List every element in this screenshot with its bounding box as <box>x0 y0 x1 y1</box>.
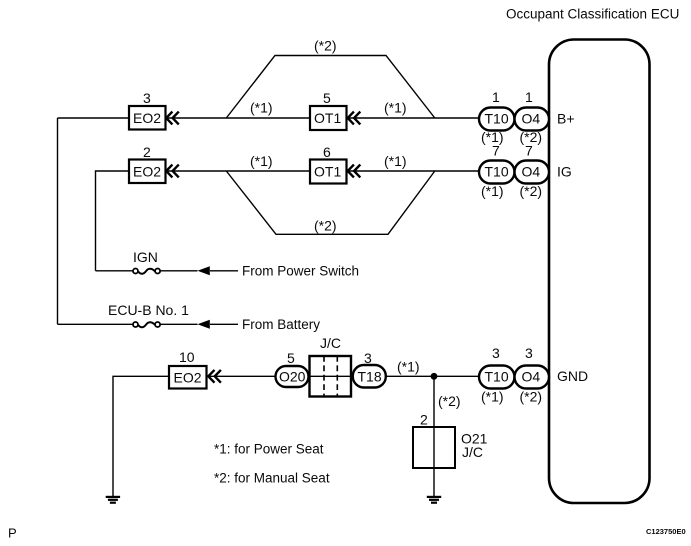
svg-text:(*1): (*1) <box>397 359 420 375</box>
chevron OT1 row2 <box>348 165 361 178</box>
svg-text:C123750E0: C123750E0 <box>646 527 686 536</box>
connector EO2 pin 3 <box>129 106 166 130</box>
svg-text:EO2: EO2 <box>133 164 161 180</box>
svg-text:OT1: OT1 <box>314 110 341 126</box>
svg-text:3: 3 <box>143 90 151 106</box>
svg-text:T10: T10 <box>485 164 509 180</box>
svg-text:IG: IG <box>557 164 572 180</box>
svg-text:OT1: OT1 <box>314 164 341 180</box>
svg-text:O4: O4 <box>522 164 541 180</box>
connector O4 row3 <box>515 366 550 389</box>
svg-text:From Power Switch: From Power Switch <box>242 264 359 279</box>
svg-text:EO2: EO2 <box>133 110 161 126</box>
svg-text:7: 7 <box>492 143 500 159</box>
chevron OT1 row1 <box>348 112 361 125</box>
svg-text:2: 2 <box>420 412 428 428</box>
svg-text:P: P <box>8 526 17 541</box>
wire *2 bypass bottom <box>226 171 434 234</box>
wire row3 segment EO2-O20 <box>207 375 276 377</box>
wire junction down to ground <box>433 376 435 496</box>
svg-text:J/C: J/C <box>462 444 483 460</box>
svg-text:GND: GND <box>557 368 588 384</box>
junction connector J/C box <box>309 356 353 397</box>
svg-text:T10: T10 <box>485 369 509 385</box>
wire row1 left (bus to EO2) <box>58 117 130 119</box>
svg-text:10: 10 <box>179 349 195 365</box>
chevron EO2 row3 <box>208 370 221 383</box>
connector T10 row2 <box>479 161 515 184</box>
connector T18 <box>353 365 386 388</box>
svg-text:ECU-B No. 1: ECU-B No. 1 <box>108 302 189 318</box>
svg-text:Occupant Classification ECU: Occupant Classification ECU <box>506 7 679 22</box>
wire after arrow row ECU-B <box>210 323 238 325</box>
chevron EO2 row1 <box>166 112 179 125</box>
svg-text:B+: B+ <box>557 111 575 127</box>
svg-text:1: 1 <box>492 89 500 105</box>
connector T10 row3 <box>479 366 515 389</box>
svg-text:T18: T18 <box>358 369 382 385</box>
ground right <box>427 497 441 503</box>
fuse ECU-B <box>58 322 198 327</box>
wire row1 right (OT1 to T10) <box>345 117 480 119</box>
wire left bus outer <box>57 118 59 324</box>
svg-text:5: 5 <box>287 350 295 366</box>
chevron EO2 row2 <box>166 165 179 178</box>
wire EO2 10 to ground <box>113 376 169 496</box>
svg-text:(*1): (*1) <box>384 153 407 169</box>
svg-text:O4: O4 <box>522 369 541 385</box>
wire row2 right (OT1 to T10) <box>345 170 480 172</box>
ECU body (Occupant Classification ECU) <box>549 40 650 504</box>
svg-text:(*2): (*2) <box>520 183 543 199</box>
svg-text:(*1): (*1) <box>481 389 504 405</box>
connector O20 <box>276 366 309 387</box>
connector EO2 pin 2 <box>129 160 166 184</box>
svg-text:3: 3 <box>492 345 500 361</box>
svg-text:2: 2 <box>143 144 151 160</box>
svg-text:7: 7 <box>525 143 533 159</box>
connector EO2 pin 10 <box>169 366 207 389</box>
svg-text:(*2): (*2) <box>520 389 543 405</box>
svg-text:6: 6 <box>323 144 331 160</box>
svg-text:*2: for Manual Seat: *2: for Manual Seat <box>214 471 330 486</box>
svg-text:*1: for Power Seat: *1: for Power Seat <box>214 442 324 457</box>
svg-text:O20: O20 <box>279 369 306 385</box>
junction node <box>431 373 438 380</box>
svg-text:(*1): (*1) <box>481 183 504 199</box>
svg-text:EO2: EO2 <box>174 370 202 386</box>
connector T10 row1 <box>479 108 515 131</box>
svg-text:1: 1 <box>525 89 533 105</box>
svg-text:O4: O4 <box>522 111 541 127</box>
ground left <box>106 497 120 503</box>
wire row1 mid (EO2 to OT1) <box>166 117 311 119</box>
svg-text:(*1): (*1) <box>250 153 273 169</box>
svg-text:(*1): (*1) <box>384 100 407 116</box>
svg-text:J/C: J/C <box>320 335 341 351</box>
wire *2 bypass top <box>226 56 434 119</box>
svg-text:(*1): (*1) <box>250 100 273 116</box>
connector O4 row2 <box>515 161 550 184</box>
svg-text:T10: T10 <box>485 111 509 127</box>
svg-text:(*2): (*2) <box>314 218 337 234</box>
wire row3 T18 to T10 <box>386 375 480 377</box>
arrow From Battery <box>198 320 210 329</box>
wire row2 left <box>96 171 130 271</box>
svg-text:(*2): (*2) <box>438 393 461 409</box>
svg-text:IGN: IGN <box>133 249 158 265</box>
svg-text:5: 5 <box>323 90 331 106</box>
connector OT1 pin 5 <box>310 106 347 130</box>
connector OT1 pin 6 <box>310 160 347 184</box>
arrow From Power Switch <box>198 266 210 275</box>
svg-text:3: 3 <box>364 350 372 366</box>
junction connector O21 box <box>413 427 455 468</box>
connector O4 row1 <box>515 108 550 131</box>
svg-text:3: 3 <box>525 345 533 361</box>
fuse IGN <box>96 269 198 274</box>
wire after arrow row IGN <box>210 270 238 272</box>
wire row2 mid (EO2 to OT1) <box>166 170 311 172</box>
svg-text:(*2): (*2) <box>314 38 337 54</box>
svg-text:From Battery: From Battery <box>242 317 320 332</box>
